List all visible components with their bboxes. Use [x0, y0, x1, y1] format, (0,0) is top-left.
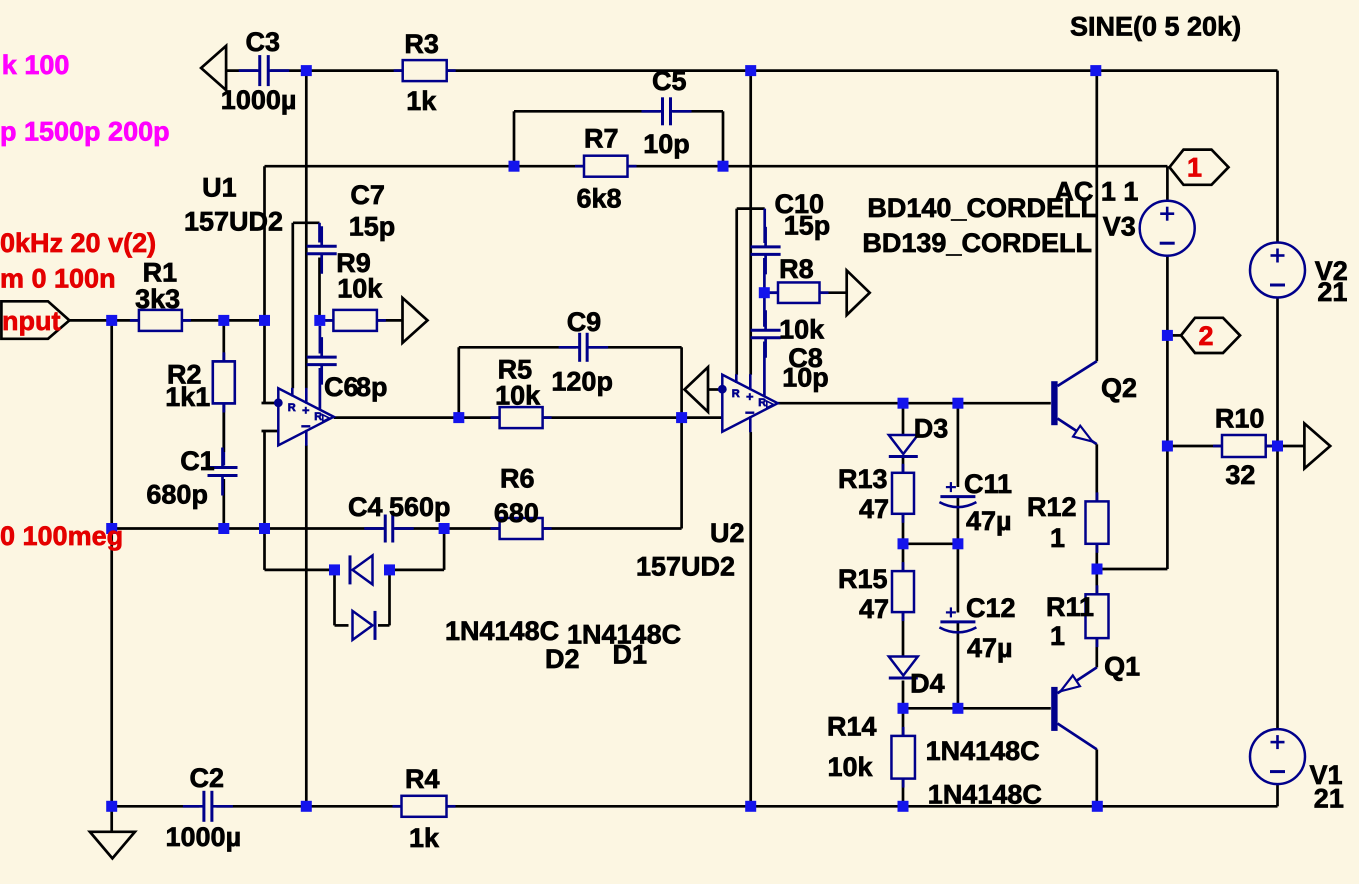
svg-text:15p: 15p: [349, 212, 396, 242]
svg-text:1: 1: [1050, 523, 1065, 553]
svg-text:47: 47: [859, 494, 889, 524]
svg-text:R: R: [732, 388, 740, 400]
svg-text:157UD2: 157UD2: [184, 207, 283, 237]
svg-text:47µ: 47µ: [966, 506, 1012, 536]
svg-text:1k: 1k: [409, 823, 440, 853]
svg-text:1000µ: 1000µ: [221, 85, 297, 115]
svg-text:R: R: [288, 402, 296, 414]
svg-text:R13: R13: [838, 464, 888, 494]
svg-text:680p: 680p: [146, 480, 208, 510]
svg-text:3k3: 3k3: [135, 284, 180, 314]
svg-text:560p: 560p: [389, 492, 451, 522]
svg-text:C9: C9: [567, 307, 602, 337]
svg-text:157UD2: 157UD2: [636, 552, 735, 582]
svg-text:C4: C4: [348, 492, 383, 522]
svg-text:R10: R10: [1215, 404, 1265, 434]
svg-text:C1: C1: [180, 446, 215, 476]
svg-text:D1: D1: [613, 640, 648, 670]
svg-text:R: R: [758, 397, 766, 409]
svg-text:0 100meg: 0 100meg: [0, 521, 123, 551]
svg-text:R1: R1: [143, 258, 178, 288]
svg-text:1k1: 1k1: [165, 382, 210, 412]
svg-text:C12: C12: [966, 593, 1016, 623]
svg-text:k 100: k 100: [2, 50, 70, 80]
svg-text:C5: C5: [652, 66, 687, 96]
svg-text:R: R: [314, 411, 322, 423]
svg-text:1N4148C: 1N4148C: [926, 736, 1040, 766]
svg-text:1N4148C: 1N4148C: [445, 616, 559, 646]
svg-text:21: 21: [1314, 784, 1344, 814]
svg-text:10k: 10k: [495, 381, 541, 411]
svg-text:Q2: Q2: [1101, 373, 1137, 403]
svg-text:SINE(0 5 20k): SINE(0 5 20k): [1070, 12, 1241, 42]
svg-text:C6: C6: [324, 372, 359, 402]
svg-text:1000µ: 1000µ: [166, 822, 242, 852]
svg-text:1N4148C: 1N4148C: [928, 780, 1042, 810]
svg-text:1k: 1k: [406, 86, 437, 116]
svg-text:10k: 10k: [779, 315, 825, 345]
svg-text:R8: R8: [779, 254, 814, 284]
svg-text:AC 1 1: AC 1 1: [1054, 177, 1138, 207]
svg-text:p 1500p 200p: p 1500p 200p: [0, 117, 170, 147]
svg-text:C3: C3: [246, 27, 281, 57]
svg-text:680: 680: [494, 498, 539, 528]
svg-text:R3: R3: [404, 29, 439, 59]
svg-text:R12: R12: [1027, 492, 1077, 522]
svg-text:120p: 120p: [551, 367, 613, 397]
svg-text:Q1: Q1: [1104, 652, 1140, 682]
svg-text:47: 47: [859, 594, 889, 624]
svg-text:1: 1: [1050, 621, 1065, 651]
svg-text:6k8: 6k8: [577, 184, 622, 214]
svg-text:BD139_CORDELL: BD139_CORDELL: [862, 228, 1092, 258]
svg-text:C7: C7: [350, 180, 385, 210]
svg-text:D3: D3: [914, 414, 949, 444]
svg-text:R11: R11: [1046, 592, 1094, 622]
svg-text:10k: 10k: [828, 752, 874, 782]
svg-text:C2: C2: [190, 763, 225, 793]
svg-text:R7: R7: [584, 124, 619, 154]
svg-text:R15: R15: [838, 564, 888, 594]
svg-text:U1: U1: [202, 173, 237, 203]
svg-text:R6: R6: [500, 464, 535, 494]
svg-text:D4: D4: [910, 669, 945, 699]
svg-text:8p: 8p: [356, 372, 388, 402]
svg-text:U2: U2: [710, 518, 745, 548]
svg-text:1: 1: [1187, 153, 1202, 183]
svg-text:R14: R14: [827, 712, 877, 742]
svg-text:10p: 10p: [643, 129, 690, 159]
svg-text:2: 2: [1198, 321, 1213, 351]
svg-text:R4: R4: [405, 764, 440, 794]
svg-text:C11: C11: [964, 469, 1012, 499]
svg-text:nput: nput: [2, 306, 60, 336]
svg-text:10p: 10p: [782, 363, 829, 393]
svg-text:32: 32: [1225, 460, 1255, 490]
svg-text:V3: V3: [1103, 212, 1136, 242]
svg-text:47µ: 47µ: [967, 633, 1013, 663]
svg-text:0kHz 20 v(2): 0kHz 20 v(2): [0, 228, 156, 258]
svg-text:10k: 10k: [337, 274, 383, 304]
svg-text:15p: 15p: [784, 211, 831, 241]
svg-text:21: 21: [1317, 277, 1347, 307]
svg-text:m 0 100n: m 0 100n: [0, 264, 116, 294]
